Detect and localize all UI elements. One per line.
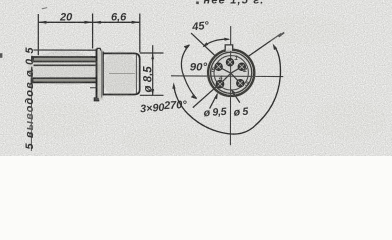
pin 3 xyxy=(237,79,245,87)
scan tone patches xyxy=(20,16,386,152)
leader dia 5 xyxy=(232,90,240,102)
spoke to pin 5 xyxy=(219,67,231,73)
extension line can top xyxy=(140,52,164,54)
pin 5 xyxy=(215,63,223,71)
scan grain xyxy=(0,0,1,1)
leader dia 9,5 arrowhead xyxy=(214,93,218,100)
dimension line 20 / 6,6 xyxy=(38,21,140,23)
leader dia 9,5 xyxy=(210,94,218,109)
radial line 10:30 xyxy=(191,33,215,56)
pin 1 xyxy=(226,58,234,66)
arrowhead right of 20 xyxy=(84,21,92,24)
flange fill xyxy=(97,50,104,100)
extension line at lead tips xyxy=(37,14,39,55)
can body outline xyxy=(103,53,140,94)
spoke to pin 2 xyxy=(231,67,242,73)
pin 2 xyxy=(238,63,246,71)
270 arc end arrowhead xyxy=(172,82,175,88)
lead 1 (top, thin) xyxy=(33,49,96,51)
can axis mark xyxy=(109,73,135,75)
leader dia 5 arrowhead xyxy=(231,89,236,95)
flange top nub xyxy=(97,48,101,50)
lead 4 top edge xyxy=(31,77,97,79)
scan mark left edge xyxy=(0,53,2,58)
lead 2 tip xyxy=(31,56,34,62)
spoke to pin 4 xyxy=(220,73,231,84)
flange bottom foot fill xyxy=(95,98,99,101)
lead 5 stub xyxy=(90,87,97,89)
270 degree dimension arc xyxy=(174,47,281,134)
can end seam xyxy=(135,54,137,94)
lead 2 top edge xyxy=(31,56,97,58)
index tab xyxy=(225,45,233,51)
stray scan dash xyxy=(42,8,47,9)
lead 4 bottom edge xyxy=(31,81,97,83)
90 arc bottom arrowhead xyxy=(191,95,197,100)
lead 4 tip xyxy=(31,78,34,84)
arrowhead up at can top xyxy=(151,53,154,59)
cropped note leading dot xyxy=(196,2,199,5)
arrowhead left of 6,6 xyxy=(93,21,101,24)
lead 2 bottom edge xyxy=(33,61,97,63)
lead 2 body fill xyxy=(31,57,97,61)
radial line 1:30 xyxy=(248,33,281,56)
270 arc top arrowhead xyxy=(273,44,278,50)
arrowhead up at lead 3 xyxy=(31,66,34,71)
45 degree arc xyxy=(203,39,228,46)
extension line at flange face xyxy=(92,14,94,49)
flange inner line xyxy=(101,51,103,98)
pin 4 xyxy=(216,80,224,88)
lead 4 body fill xyxy=(31,79,97,83)
lead diameter dimension line xyxy=(31,67,33,77)
flange right face xyxy=(102,52,104,96)
90 arc top arrowhead xyxy=(184,44,190,49)
bottom view outer circle xyxy=(208,50,254,96)
radial 1:30 end tick xyxy=(279,32,285,36)
leader continuation down xyxy=(30,84,32,151)
arrowhead left of 20 xyxy=(38,21,46,24)
spoke to pin 3 xyxy=(231,73,241,83)
extension line can bottom xyxy=(140,94,164,96)
radial line 7:30 xyxy=(193,87,216,108)
dia 8,5 dimension line xyxy=(152,45,154,95)
bottom view second circle xyxy=(211,52,252,93)
extension line at can end xyxy=(139,14,141,53)
arrowhead down at can bottom xyxy=(151,89,154,95)
arrowhead right of 6,6 xyxy=(132,21,140,24)
horizontal centerline xyxy=(171,75,283,78)
90 degree arc xyxy=(181,45,196,99)
arrowhead down at lead 4 xyxy=(31,73,34,78)
flange bottom foot xyxy=(95,97,100,100)
45 arc right arrowhead xyxy=(224,38,230,41)
bottom view inner circle xyxy=(214,56,248,90)
flange left face xyxy=(96,49,98,101)
lead 3 xyxy=(34,64,97,66)
vertical centerline xyxy=(229,26,231,145)
45 arc left arrowhead xyxy=(203,42,209,47)
scan shading over drawing xyxy=(28,48,256,98)
